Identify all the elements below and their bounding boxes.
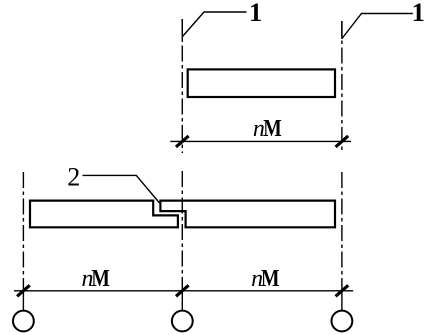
modular axis line (bottom figure, right chain line) <box>341 172 343 291</box>
svg-text:M: M <box>263 116 282 142</box>
leader line to label 1 (left) <box>183 12 247 37</box>
dimension tick (top figure, left) <box>176 136 189 147</box>
grid bubble (left) <box>13 311 34 332</box>
svg-text:M: M <box>91 266 110 292</box>
left axis solid drop to grid bubble <box>22 291 24 311</box>
dimension value nM (top figure) <box>253 116 282 142</box>
modular axis line (top figure, right chain line) <box>341 21 343 153</box>
dimension tick (bottom figure, right) <box>336 285 349 296</box>
solid run at top of right axis where leader springs <box>341 21 343 39</box>
leader line to label 2 <box>83 175 160 203</box>
svg-text:1: 1 <box>249 0 262 27</box>
dimension line (top figure) <box>170 140 351 142</box>
svg-text:M: M <box>261 266 280 292</box>
svg-text:2: 2 <box>67 162 80 191</box>
dimension tick (bottom figure, middle) <box>176 285 189 296</box>
dimension line (bottom figure) <box>14 290 353 292</box>
modular axis line (bottom figure, middle chain line) <box>181 171 183 291</box>
wall panel (top figure rectangle) <box>188 69 335 97</box>
modular axis line (top figure, left chain line) <box>181 19 183 153</box>
svg-text:1: 1 <box>412 0 425 27</box>
right wall panel with stepped end (bottom figure) <box>160 201 335 228</box>
dimension value nM (bottom figure, left span) <box>82 266 110 292</box>
left wall panel with stepped end (bottom figure) <box>30 201 178 228</box>
dimension tick (bottom figure, left) <box>17 285 30 296</box>
dimension tick (top figure, right) <box>336 136 349 147</box>
solid run at top of left axis where leader springs <box>181 19 183 39</box>
leader line to label 1 (right) <box>342 14 413 39</box>
right axis solid drop to grid bubble <box>341 291 343 311</box>
middle axis solid drop to grid bubble <box>181 291 183 311</box>
modular axis line (bottom figure, left chain line) <box>22 172 24 291</box>
dimension value nM (bottom figure, right span) <box>251 266 279 292</box>
grid bubble (middle) <box>172 311 193 332</box>
grid bubble (right) <box>332 311 353 332</box>
